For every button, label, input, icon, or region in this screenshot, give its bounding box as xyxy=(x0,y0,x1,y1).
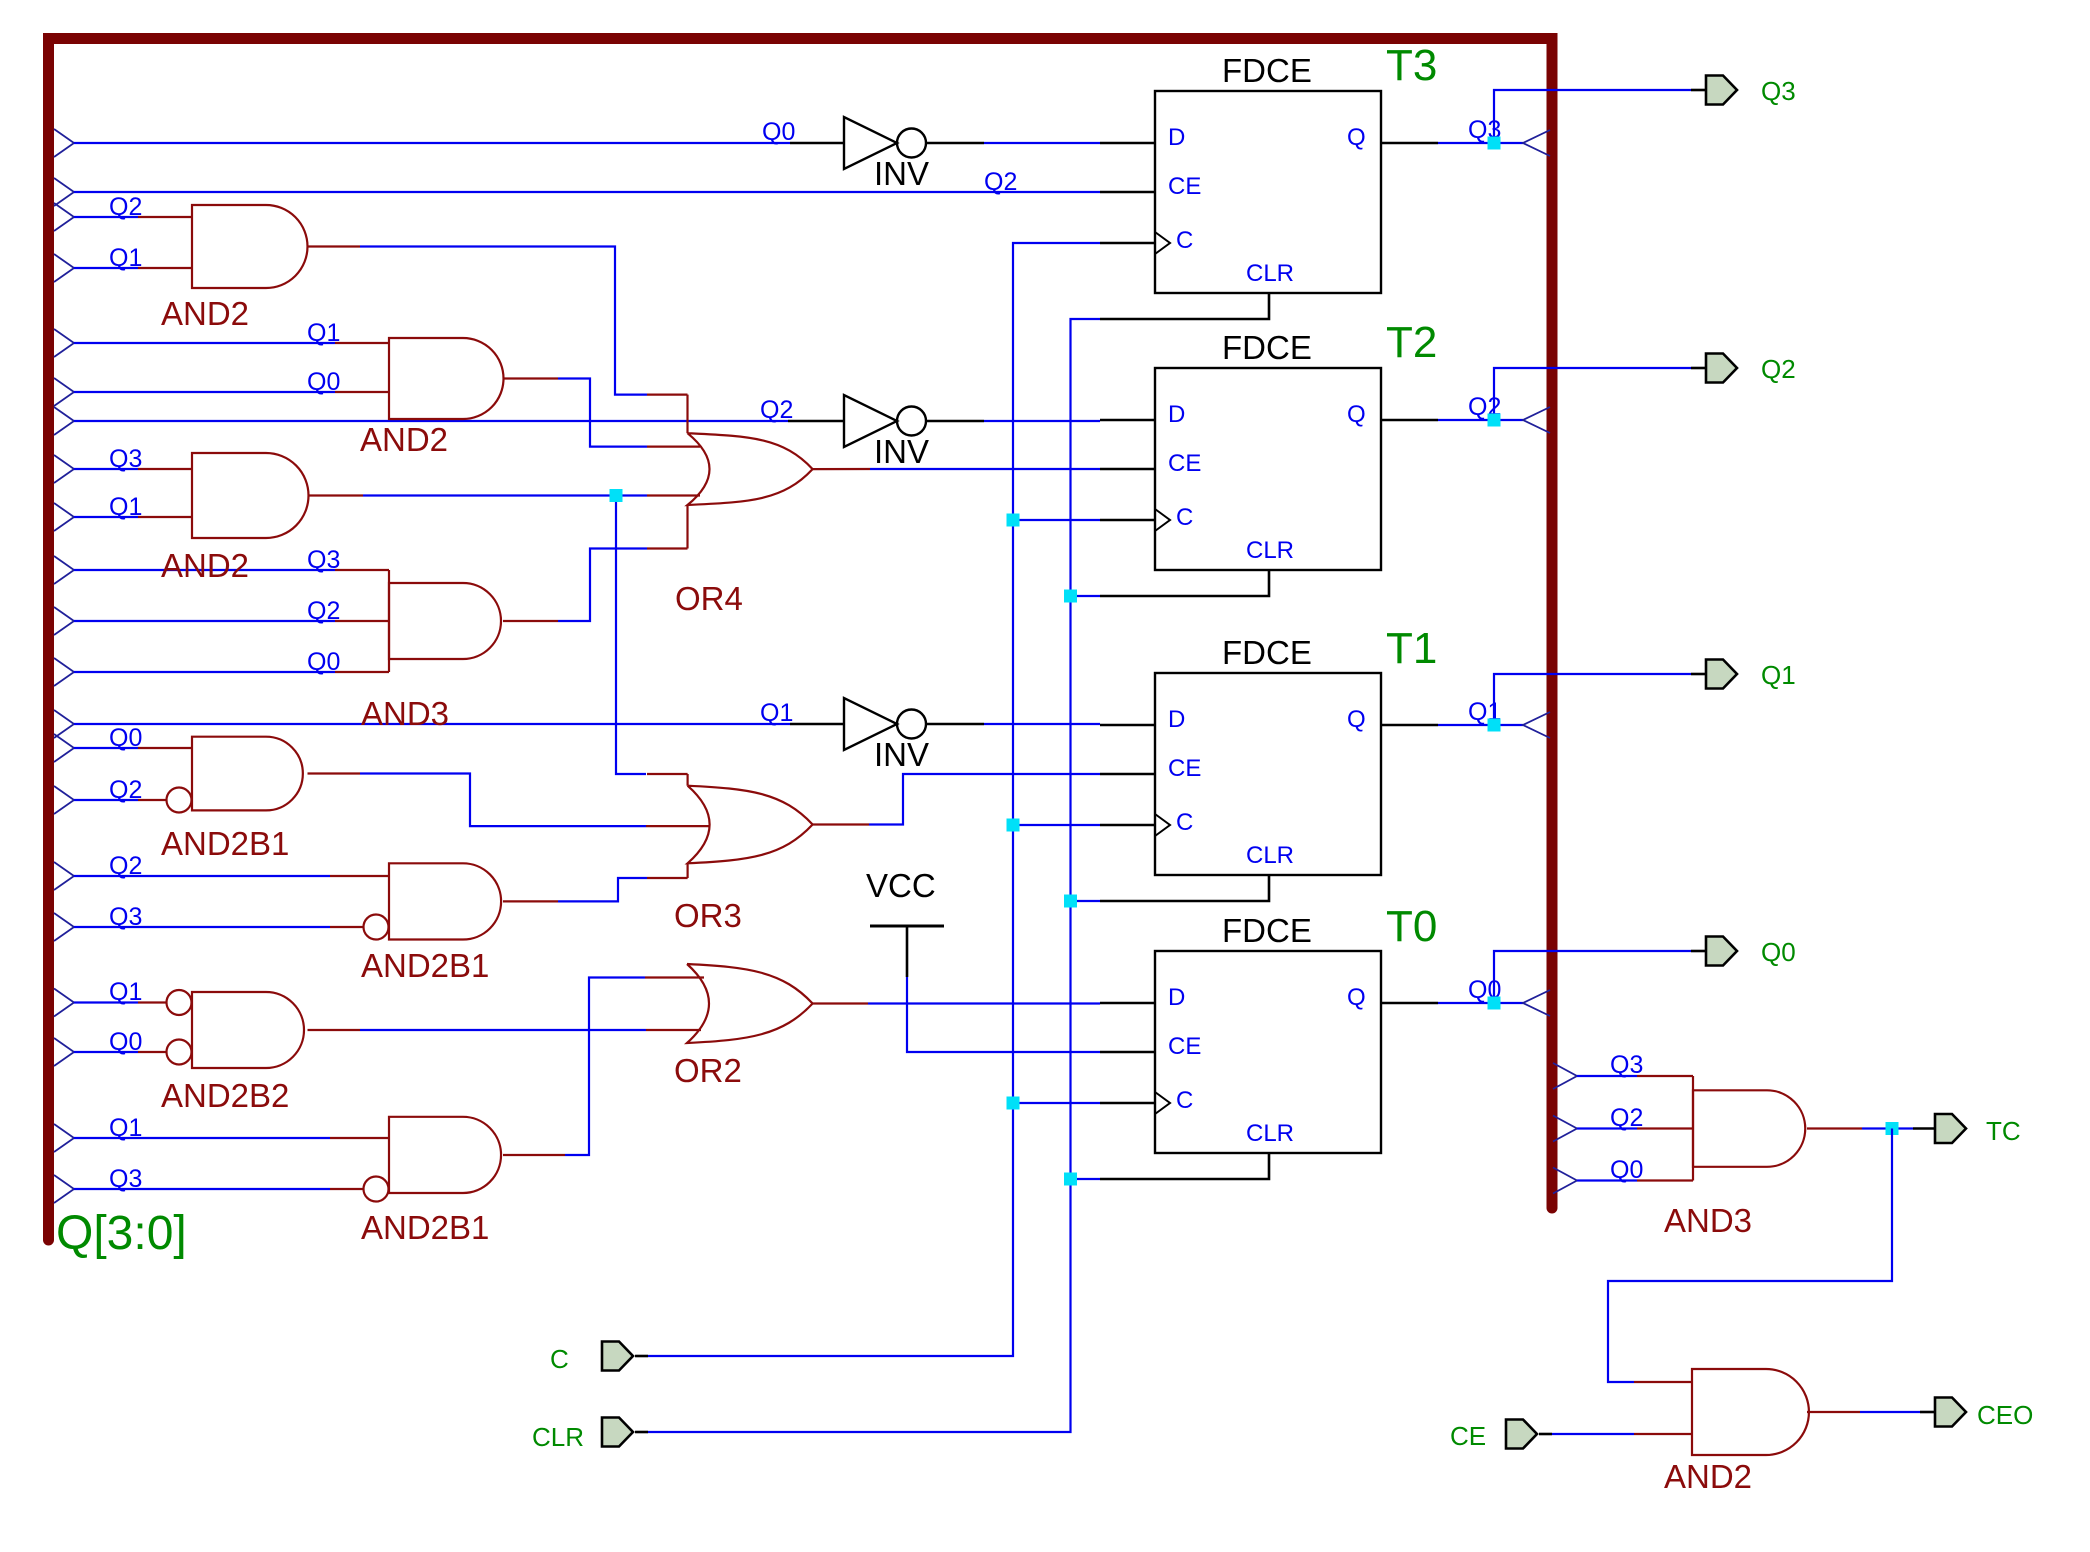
wire Q2 from FDCE Q output to bus tap and output port xyxy=(1438,419,1523,421)
junction C at T2 xyxy=(1007,514,1020,527)
svg-text:Q0: Q0 xyxy=(1761,937,1796,967)
wire Q3 from bus to AND2B1 G6 input 2 (inverted) xyxy=(54,913,74,941)
svg-text:INV: INV xyxy=(874,433,929,470)
output port Q1 xyxy=(1706,660,1737,689)
output port TC xyxy=(1935,1114,1966,1143)
AND gate AND2B1 G5 (one inverted input) xyxy=(138,737,303,862)
svg-text:INV: INV xyxy=(874,155,929,192)
wire OR2 output to T0 D xyxy=(813,1002,868,1004)
svg-text:T0: T0 xyxy=(1386,902,1437,951)
svg-text:D: D xyxy=(1168,984,1185,1011)
svg-text:Q: Q xyxy=(1347,401,1366,428)
svg-text:AND2B1: AND2B1 xyxy=(361,1209,489,1246)
svg-text:Q1: Q1 xyxy=(109,978,142,1006)
AND gate AND2 G10 xyxy=(1664,1369,1809,1495)
junction TC xyxy=(1886,1122,1899,1135)
svg-text:Q3: Q3 xyxy=(109,1165,142,1193)
OR gate OR3 xyxy=(647,774,813,934)
AND gate AND2 G2 xyxy=(335,338,504,458)
svg-text:Q2: Q2 xyxy=(1761,354,1796,384)
wire Q2 from bus to AND3 G9 input 2 xyxy=(1553,1116,1577,1142)
svg-text:Q1: Q1 xyxy=(109,244,142,272)
wire AND3 G4 output to OR4 input 4 xyxy=(503,620,558,622)
wire CLR to T0 CLR xyxy=(1071,1178,1101,1180)
svg-text:CE: CE xyxy=(1168,755,1201,782)
input port CLR xyxy=(602,1418,633,1447)
svg-text:AND3: AND3 xyxy=(361,695,449,732)
flip-flop FDCE T1 xyxy=(1100,624,1438,901)
AND gate AND2B1 G6 (one inverted input) xyxy=(330,863,501,984)
wire INV U1 output to T3 D xyxy=(926,142,984,145)
wire Q2 from bus to INV U2 input xyxy=(54,407,74,435)
svg-text:Q3: Q3 xyxy=(1610,1051,1643,1079)
wire AND2 G10 output to CEO port xyxy=(1807,1411,1860,1413)
svg-text:T3: T3 xyxy=(1386,41,1437,90)
OR gate OR4 xyxy=(647,395,813,617)
svg-text:FDCE: FDCE xyxy=(1222,52,1312,89)
junction Q3 xyxy=(1488,137,1501,150)
wire Q2 from bus to AND2B1 G6 input 1 xyxy=(54,862,74,890)
junction Q2 xyxy=(1488,414,1501,427)
wire AND2 G2 output to OR4 input 2 xyxy=(503,377,558,379)
wire Q1 from FDCE Q output to bus tap and output port xyxy=(1438,724,1523,726)
svg-text:FDCE: FDCE xyxy=(1222,329,1312,366)
wire CLR port stub xyxy=(635,1431,648,1434)
svg-text:Q1: Q1 xyxy=(1761,660,1796,690)
wire C port stub xyxy=(635,1355,648,1358)
wire TC branch to AND2 G10 input 1 xyxy=(1608,1129,1892,1383)
svg-text:C: C xyxy=(1176,504,1193,531)
wire AND3 G9 output to TC port and branch xyxy=(1807,1127,1862,1129)
input port C xyxy=(602,1342,633,1371)
svg-text:D: D xyxy=(1168,706,1185,733)
wire Q3 from bus to AND3 G4 input 1 xyxy=(54,556,74,584)
wire Q1 from bus to AND2B1 G8 input 1 xyxy=(54,1124,74,1152)
wire AND2B2 G7 output to OR2 input 2 xyxy=(308,1029,361,1031)
wire VCC to T0 CE xyxy=(907,977,1100,1052)
wire AND2 G3 output to OR4 input 3 and branch to OR3 xyxy=(308,494,364,496)
wire Q3 from bus to AND2B1 G8 input 2 (inverted) xyxy=(54,1175,74,1203)
OR gate OR2 xyxy=(674,964,813,1089)
svg-text:AND2: AND2 xyxy=(161,295,249,332)
svg-text:AND2: AND2 xyxy=(1664,1458,1752,1495)
inverter INV U2 xyxy=(788,395,929,470)
svg-text:D: D xyxy=(1168,124,1185,151)
bus Q[3:0] frame (left, top, right heavy maroon bus) xyxy=(49,39,1553,1241)
svg-text:AND2B2: AND2B2 xyxy=(161,1077,289,1114)
svg-text:Q: Q xyxy=(1347,124,1366,151)
svg-text:Q: Q xyxy=(1347,984,1366,1011)
svg-text:C: C xyxy=(1176,809,1193,836)
wire OR4 output to T2 CE xyxy=(813,468,870,470)
wire Q3 from bus to AND3 G9 input 1 xyxy=(1553,1063,1577,1089)
svg-text:C: C xyxy=(550,1344,569,1374)
wire Q0 from bus to INV U1 input xyxy=(54,129,74,157)
junction CLR at T2 xyxy=(1064,590,1077,603)
power symbol VCC xyxy=(866,867,944,977)
junction C at T0 xyxy=(1007,1097,1020,1110)
wire CLR to T1 CLR xyxy=(1071,900,1101,902)
svg-text:Q0: Q0 xyxy=(109,1028,142,1056)
junction C at T1 xyxy=(1007,819,1020,832)
svg-text:AND2B1: AND2B1 xyxy=(161,825,289,862)
junction Q0 xyxy=(1488,997,1501,1010)
svg-text:CLR: CLR xyxy=(1246,1120,1294,1147)
wire AND2 G1 output to OR4 input 1 xyxy=(308,245,361,247)
output port Q2 xyxy=(1706,354,1737,383)
svg-text:CE: CE xyxy=(1168,450,1201,477)
svg-text:OR4: OR4 xyxy=(675,580,743,617)
svg-text:Q2: Q2 xyxy=(109,193,142,221)
wire Q0 from FDCE Q output to bus tap and output port xyxy=(1438,1002,1523,1004)
svg-text:Q[3:0]: Q[3:0] xyxy=(56,1207,187,1260)
wire C to T2 clock pin xyxy=(1013,519,1100,521)
wire Q1 from bus to AND2 G1 input 2 xyxy=(54,254,74,282)
wire OR3 output to T1 CE xyxy=(813,823,869,825)
wire Q0 from bus to AND2B1 G5 input 1 xyxy=(54,734,74,762)
svg-text:AND2: AND2 xyxy=(161,547,249,584)
svg-text:VCC: VCC xyxy=(866,867,936,904)
svg-text:Q3: Q3 xyxy=(1761,76,1796,106)
svg-text:C: C xyxy=(1176,227,1193,254)
wire Q2 from bus to T3 CE xyxy=(54,178,74,206)
svg-text:T2: T2 xyxy=(1386,318,1437,367)
junction CLR at T0 xyxy=(1064,1173,1077,1186)
wire Q0 from bus to AND2B2 G7 input 2 (inverted) xyxy=(54,1038,74,1066)
svg-text:Q2: Q2 xyxy=(984,168,1017,196)
AND gate AND2B1 G8 (one inverted input) xyxy=(330,1117,501,1246)
svg-text:TC: TC xyxy=(1986,1116,2021,1146)
svg-text:FDCE: FDCE xyxy=(1222,912,1312,949)
svg-text:AND2B1: AND2B1 xyxy=(361,947,489,984)
wire CLR net vertical distribution xyxy=(648,319,1100,1432)
wire AND2B1 G6 output to OR3 input 3 xyxy=(503,900,558,902)
svg-text:CEO: CEO xyxy=(1977,1400,2033,1430)
svg-text:OR2: OR2 xyxy=(674,1052,742,1089)
wire Q1 from bus to AND2B2 G7 input 1 (inverted) xyxy=(54,989,74,1017)
AND gate AND2B2 G7 (two inverted inputs) xyxy=(138,990,304,1114)
svg-text:Q1: Q1 xyxy=(109,1114,142,1142)
output port Q0 xyxy=(1706,937,1737,966)
svg-text:T1: T1 xyxy=(1386,624,1437,673)
flip-flop FDCE T0 xyxy=(1100,902,1438,1179)
wire Q3 from FDCE Q output to bus tap and output port xyxy=(1438,142,1523,144)
wire Q2 from bus to AND2B1 G5 input 2 (inverted) xyxy=(54,786,74,814)
flip-flop FDCE T3 xyxy=(1100,41,1438,319)
wire Q1 from bus to INV U3 input xyxy=(54,710,74,738)
wire Q3 from bus to AND2 G3 input 1 xyxy=(54,455,74,483)
input port CE xyxy=(1506,1420,1537,1449)
svg-text:Q0: Q0 xyxy=(109,724,142,752)
AND gate AND3 G9 xyxy=(1637,1076,1805,1239)
wire C to T1 clock pin xyxy=(1013,824,1100,826)
svg-text:CLR: CLR xyxy=(1246,537,1294,564)
output port Q3 xyxy=(1706,76,1737,105)
svg-text:AND2: AND2 xyxy=(360,421,448,458)
svg-text:Q1: Q1 xyxy=(760,699,793,727)
AND gate AND2 G3 xyxy=(138,453,309,584)
wire INV U3 output to T1 D xyxy=(926,723,984,726)
wire INV U2 output to T2 D xyxy=(926,420,984,423)
wire C to T0 clock pin xyxy=(1013,1102,1100,1104)
svg-text:OR3: OR3 xyxy=(674,897,742,934)
svg-text:CE: CE xyxy=(1168,1033,1201,1060)
svg-text:FDCE: FDCE xyxy=(1222,634,1312,671)
wire Q2 from bus to AND2 G1 input 1 xyxy=(54,203,74,231)
wire AND2B1 G5 output to OR3 input 2 xyxy=(308,772,361,774)
svg-text:Q: Q xyxy=(1347,706,1366,733)
svg-text:INV: INV xyxy=(874,736,929,773)
svg-text:Q3: Q3 xyxy=(109,903,142,931)
svg-text:CLR: CLR xyxy=(532,1422,584,1452)
svg-text:CLR: CLR xyxy=(1246,842,1294,869)
svg-text:Q1: Q1 xyxy=(109,493,142,521)
output port CEO xyxy=(1935,1398,1966,1427)
wire AND2B1 G8 output to OR2 input 1 xyxy=(503,1154,565,1156)
svg-text:CLR: CLR xyxy=(1246,260,1294,287)
wire Q1 from bus to AND2 G2 input 1 xyxy=(54,329,74,357)
svg-text:Q2: Q2 xyxy=(109,852,142,880)
svg-text:Q2: Q2 xyxy=(109,776,142,804)
inverter INV U3 xyxy=(790,698,929,773)
wire Q0 from bus to AND2 G2 input 2 xyxy=(54,378,74,406)
svg-text:Q3: Q3 xyxy=(109,445,142,473)
wire branch down to OR3 input 1 xyxy=(616,496,646,775)
wire Q2 from bus to AND3 G4 input 2 xyxy=(54,607,74,635)
inverter INV U1 xyxy=(790,117,929,192)
wire CE to AND2 G10 input 2 xyxy=(1539,1433,1552,1436)
wire C clock net vertical distribution xyxy=(648,243,1100,1356)
junction Q1 xyxy=(1488,719,1501,732)
junction CLR at T1 xyxy=(1064,895,1077,908)
wire CLR to T2 CLR xyxy=(1071,595,1101,597)
wire Q1 from bus to AND2 G3 input 2 xyxy=(54,503,74,531)
svg-text:CE: CE xyxy=(1450,1421,1486,1451)
wire Q0 from bus to AND3 G9 input 3 xyxy=(1553,1168,1577,1194)
junction AND2 G3 output branch xyxy=(610,489,623,502)
flip-flop FDCE T2 xyxy=(1100,318,1438,596)
svg-text:CE: CE xyxy=(1168,173,1201,200)
wire Q0 from bus to AND3 G4 input 3 xyxy=(54,658,74,686)
AND gate AND2 G1 xyxy=(138,205,308,332)
svg-text:AND3: AND3 xyxy=(1664,1202,1752,1239)
AND gate AND3 G4 xyxy=(335,570,501,732)
svg-text:D: D xyxy=(1168,401,1185,428)
svg-text:C: C xyxy=(1176,1087,1193,1114)
